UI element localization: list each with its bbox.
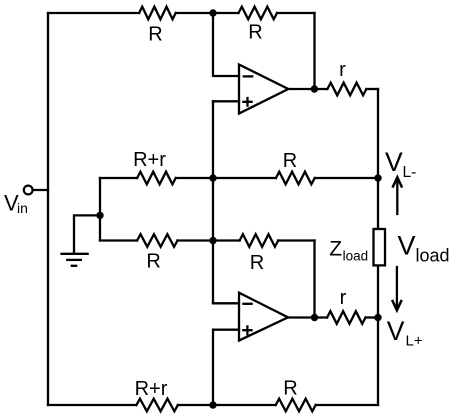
svg-text:R: R <box>283 378 297 400</box>
wire U2 minus input <box>213 302 239 304</box>
svg-text:r: r <box>339 59 346 81</box>
node U2 output junction <box>311 314 318 321</box>
op-amp U1 minus sign <box>244 75 252 77</box>
svg-text:V: V <box>387 316 405 346</box>
arrow V_load up head <box>393 177 402 186</box>
wire U1 plus input <box>213 100 239 102</box>
resistor R+r (bottom) <box>136 399 178 412</box>
svg-text:Z: Z <box>329 237 342 260</box>
wire R row middle <box>178 239 240 241</box>
node R+r row junction <box>209 174 216 181</box>
svg-text:L+: L+ <box>406 333 423 350</box>
wire central vertical <box>212 101 214 303</box>
resistor R+r (middle) <box>137 172 176 185</box>
svg-text:R: R <box>148 24 162 46</box>
resistor R1 (top left) <box>139 7 176 20</box>
resistor R6 (bottom right) <box>276 399 316 412</box>
wire r2 to VL+ node <box>366 316 379 318</box>
op-amp U2 <box>239 293 288 341</box>
wire top row left <box>48 12 139 14</box>
op-amp U1 plus sign <box>243 98 251 106</box>
wire left bus <box>47 13 49 405</box>
wire R+r row left corner <box>99 178 101 241</box>
svg-text:R+r: R+r <box>135 378 168 400</box>
svg-text:R: R <box>248 22 262 44</box>
ground bar 3 <box>72 265 76 267</box>
svg-text:r: r <box>340 287 347 309</box>
svg-text:R: R <box>250 252 264 274</box>
resistor R5 (lower feedback) <box>240 234 279 247</box>
resistor R2 (top feedback) <box>239 7 278 20</box>
svg-text:R: R <box>283 150 297 172</box>
resistor r1 (upper r) <box>327 83 366 96</box>
node U1 output junction <box>311 85 318 92</box>
Z_load rectangle <box>374 229 386 265</box>
wire bottom row left <box>48 404 136 406</box>
svg-text:in: in <box>17 200 28 216</box>
wire feedback down to output U2 <box>313 241 315 318</box>
op-amp U2 plus sign <box>243 326 251 334</box>
wire R5 to corner <box>278 239 314 241</box>
wire R+r row lead <box>100 177 137 179</box>
svg-text:L-: L- <box>403 164 417 181</box>
arrow V_load down head <box>393 301 402 310</box>
node V_L- <box>374 174 381 181</box>
svg-text:load: load <box>416 246 450 266</box>
wire R row lead <box>100 239 137 241</box>
svg-text:R+r: R+r <box>133 149 166 171</box>
resistor R4 (lower middle left) <box>137 234 177 247</box>
wire right bus upper <box>377 89 379 229</box>
wire top node to minus input U1 <box>213 13 239 76</box>
wire r1 to right bus <box>366 88 378 90</box>
node R row junction <box>209 237 216 244</box>
node V_L+ <box>374 314 381 321</box>
node top junction <box>209 9 216 16</box>
wire to VL- node <box>315 177 378 179</box>
wire bottom row middle <box>178 404 276 406</box>
node bottom junction <box>209 401 216 408</box>
wire ground tap <box>74 215 100 253</box>
wire U2 output row <box>288 316 327 318</box>
op-amp U2 minus sign <box>243 303 251 305</box>
wire U2 plus input <box>213 330 239 405</box>
resistor r2 (lower r) <box>327 311 365 324</box>
wire top row right <box>277 12 315 14</box>
V_in terminal circle <box>24 186 33 195</box>
wire bottom row right <box>316 404 378 406</box>
svg-text:R: R <box>146 251 160 273</box>
svg-text:V: V <box>385 147 403 177</box>
wire R+r row middle <box>176 177 276 179</box>
wire U1 output row <box>288 88 327 90</box>
wire V_in stub <box>33 189 48 191</box>
svg-text:load: load <box>343 249 369 264</box>
svg-text:V: V <box>398 231 416 261</box>
ground bar 1 <box>62 253 88 255</box>
ground bar 2 <box>67 259 81 261</box>
arrow V_load up shaft <box>396 179 398 214</box>
node ground tap <box>96 212 103 219</box>
wire feedback down to output U1 <box>313 13 315 89</box>
wire right bus lower <box>377 265 379 405</box>
arrow V_load down shaft <box>396 267 398 309</box>
wire top row middle <box>176 12 239 14</box>
op-amp U1 <box>239 65 288 114</box>
resistor R3 (middle right) <box>276 172 315 185</box>
